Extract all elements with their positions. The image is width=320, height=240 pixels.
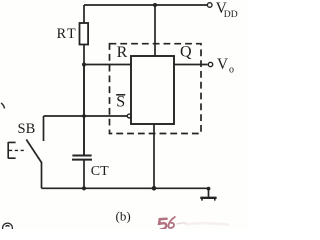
junction dot node A (below RT) xyxy=(82,63,86,67)
svg-text:R: R xyxy=(117,44,128,61)
wire left vertical xyxy=(83,65,85,155)
switch SB lower lead xyxy=(41,163,43,189)
pushbutton actuator xyxy=(8,142,15,159)
wire bottom rail xyxy=(42,187,209,189)
junction dot ground node xyxy=(207,187,211,191)
switch SB blade xyxy=(26,140,42,164)
capacitor CT plates xyxy=(72,155,91,157)
wire RT bottom lead xyxy=(83,45,85,65)
stray mark left edge xyxy=(1,103,5,109)
resistor RT xyxy=(80,23,89,45)
terminal VDD xyxy=(207,3,212,8)
capacitor CT bottom lead xyxy=(83,160,85,189)
junction dot top node xyxy=(153,3,157,7)
ground stub xyxy=(208,188,210,197)
wire R input xyxy=(84,64,131,66)
switch SB upper contact xyxy=(43,116,45,141)
svg-text:V: V xyxy=(217,56,228,73)
svg-text:DD: DD xyxy=(224,9,238,20)
svg-text:CT: CT xyxy=(91,164,109,179)
junction dot node S line xyxy=(82,114,86,118)
watermark red 56 xyxy=(159,217,228,229)
circled figure number (cut off) xyxy=(3,223,13,233)
svg-text:SB: SB xyxy=(18,121,36,137)
wire top rail VDD xyxy=(84,4,207,6)
wire FF top lead xyxy=(154,5,156,56)
inverter bubble on S input xyxy=(127,114,131,118)
capacitor CT top lead xyxy=(83,65,85,156)
junction dot CT bottom xyxy=(82,186,86,190)
overbar of S xyxy=(116,94,125,96)
wire Q output xyxy=(174,64,208,66)
flip-flop U1 box xyxy=(131,56,174,124)
wire S input xyxy=(44,115,128,117)
svg-text:(b): (b) xyxy=(116,209,131,224)
terminal Vo xyxy=(208,62,212,66)
ground bar xyxy=(200,197,216,199)
ground feet xyxy=(202,199,215,201)
svg-text:o: o xyxy=(229,65,234,76)
svg-text:RT: RT xyxy=(57,26,78,42)
wire RT top lead xyxy=(83,5,85,23)
junction dot FF bottom xyxy=(152,186,157,191)
svg-text:Q: Q xyxy=(180,44,192,61)
svg-text:S: S xyxy=(116,94,125,111)
dashed boundary box xyxy=(110,44,202,134)
wire FF bottom lead xyxy=(153,124,155,188)
pushbutton dashed link xyxy=(9,149,27,151)
